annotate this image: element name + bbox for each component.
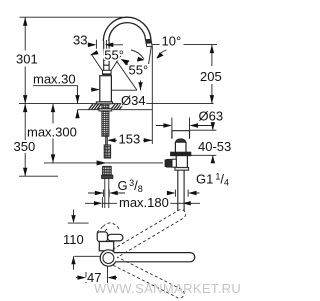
deck top line [19,103,214,105]
spout neck [104,41,109,70]
svg-text:33: 33 [73,33,87,48]
mounting shank threaded rod [102,104,109,136]
bottom view handle base [97,232,107,242]
bottom view dashed handle arc [103,223,120,230]
deck bottom line [78,109,153,111]
hatching left of shank [89,104,102,110]
dimension Ø34 arrows [91,88,98,90]
drain top cylinder [172,131,190,139]
dimension 33 [88,40,124,49]
drain body [176,156,187,168]
dimension G1 1/4 pipe [175,190,199,197]
dimension max.180 [85,197,200,208]
angle 55-2 slant line [110,51,138,90]
svg-text:Ø63: Ø63 [199,109,224,124]
mounting washer [99,109,112,111]
dimension 110 arrows [73,210,75,270]
node spout centerline [105,40,107,50]
drain side port ring [165,160,167,167]
angle 55-2 leader to horizontal [140,81,142,91]
svg-text:55°: 55° [104,48,124,63]
wire 40-53 top reference line [190,129,217,131]
spout outer arc [103,17,151,41]
angle 10 leader right [157,50,167,58]
G3/8 threaded nipple [103,166,112,176]
svg-text:max.180: max.180 [119,195,169,210]
svg-text:350: 350 [14,139,36,154]
dimension Ø63 [156,118,214,131]
wire top reference line [20,16,124,18]
drain side port nut [167,159,172,167]
hatching right of shank [111,104,124,110]
angle 10 leader left [131,50,144,59]
supply hose braided block [104,145,110,158]
angle 55-1 left lever position [92,55,103,71]
hose end fitting [97,161,105,165]
drain plug dome [175,139,186,142]
svg-text:40-53: 40-53 [198,139,231,154]
svg-text:Ø34: Ø34 [121,93,146,108]
spout inner arc [109,23,146,41]
dimension 301 line [24,17,26,103]
wire 40-53 bottom reference line [190,154,217,156]
svg-text:G11/4: G11/4 [196,172,229,188]
aerator tip [146,43,152,47]
dimension 40-53 [212,122,214,163]
angle 55-1 arc arrows [90,49,125,56]
drain tailpipe [178,170,184,211]
dimension max.300 [52,104,54,163]
angle 55-1 right lever position [111,53,122,70]
bottom view dashed handle position [97,225,109,235]
bottom view dashed spout down [113,257,184,298]
faucet body [100,76,112,102]
bottom view spout pivot inner circle [103,253,114,264]
svg-text:10°: 10° [162,34,182,49]
wire 205 top reference line [152,44,217,46]
bottom view circle center tick [107,266,109,283]
dimension 205 [211,45,213,104]
bottom view spout pivot outer circle [100,250,116,266]
wire 350 bottom reference line [19,175,58,177]
svg-text:205: 205 [200,69,222,84]
bottom view solid spout [115,253,195,262]
drain flange seal [171,152,191,156]
svg-text:G3/8: G3/8 [118,178,143,194]
bottom view body [99,242,113,251]
angle 55-2 leader to slant [121,59,133,69]
spout vertical extension line [151,46,153,144]
dimension 350 [24,104,26,177]
faucet base plate [96,102,112,104]
drain neck [175,142,186,152]
svg-text:55°: 55° [129,63,149,78]
wire pop-up rod line [44,162,163,164]
bottom view handle bar [108,234,123,241]
drain bottom collar [175,167,189,170]
spout neck base flare [103,70,112,74]
svg-text:110: 110 [63,232,84,247]
svg-text:max.30: max.30 [33,72,76,87]
dimension G3/8 pipe [88,190,174,197]
svg-text:301: 301 [16,52,38,67]
G3/8 nipple collar [102,175,113,178]
dimension max.30 [33,86,78,118]
svg-text:153: 153 [119,132,141,147]
supply hose upper [106,136,108,145]
aerator [146,39,152,43]
bottom view 110 bottom reference line [74,255,100,257]
bottom view dashed spout up [113,210,186,258]
bottom view 110 top reference line [68,222,89,224]
dimension 153 [107,133,152,145]
spout axis slant line [149,46,152,64]
svg-text:max.300: max.300 [27,125,77,140]
G3/8 pipe [105,178,109,208]
svg-text:WWW.SANMARKET.RU: WWW.SANMARKET.RU [94,281,241,296]
angle 55-2 horizontal line [111,89,137,91]
dimension 47 [76,272,117,283]
drain side port stub [172,159,176,167]
